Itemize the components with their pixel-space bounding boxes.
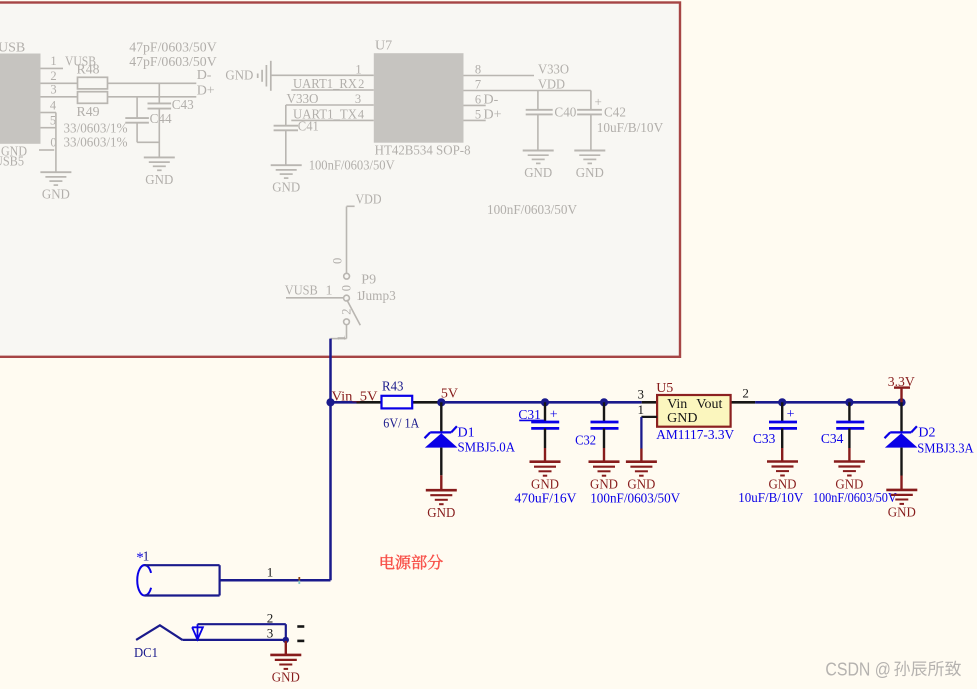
svg-text:U7: U7 (375, 39, 392, 54)
svg-text:USB5: USB5 (0, 154, 24, 169)
svg-text:GND: GND (888, 506, 916, 521)
svg-text:AM1117-3.3V: AM1117-3.3V (656, 428, 734, 443)
svg-text:2: 2 (742, 386, 749, 401)
svg-text:100nF/0603/50V: 100nF/0603/50V (590, 492, 680, 507)
svg-text:47pF/0603/50V: 47pF/0603/50V (129, 41, 217, 56)
svg-text:1: 1 (638, 402, 645, 417)
svg-text:33/0603/1%: 33/0603/1% (64, 121, 128, 136)
svg-text:C44: C44 (150, 112, 172, 127)
svg-text:D+: D+ (484, 108, 502, 123)
svg-text:10uF/B/10V: 10uF/B/10V (597, 121, 664, 136)
svg-text:4: 4 (50, 98, 57, 112)
svg-text:P9: P9 (361, 273, 376, 288)
svg-text:GND: GND (590, 478, 618, 493)
svg-text:2: 2 (340, 309, 354, 315)
svg-text:V33O: V33O (287, 92, 319, 107)
svg-text:D1: D1 (458, 426, 475, 441)
svg-text:C40: C40 (554, 105, 576, 120)
svg-text:47pF/0603/50V: 47pF/0603/50V (129, 55, 217, 70)
svg-text:5: 5 (475, 108, 481, 122)
svg-text:1: 1 (143, 549, 150, 564)
svg-text:R48: R48 (77, 63, 100, 78)
svg-text:D-: D- (484, 93, 499, 108)
svg-text:GND: GND (427, 506, 455, 521)
svg-text:GND: GND (531, 478, 559, 493)
svg-text:3: 3 (267, 625, 274, 640)
svg-text:D-: D- (197, 68, 212, 83)
svg-text:7: 7 (475, 77, 481, 91)
svg-text:C42: C42 (604, 105, 626, 120)
svg-text:GND: GND (627, 478, 655, 493)
svg-text:UART1_RX: UART1_RX (293, 77, 357, 92)
svg-text:100nF/0603/50V: 100nF/0603/50V (309, 159, 395, 174)
svg-text:0: 0 (339, 285, 353, 291)
svg-text:100nF/0603/50V: 100nF/0603/50V (813, 491, 897, 506)
svg-text:3: 3 (355, 92, 361, 106)
svg-text:+: + (595, 94, 602, 109)
svg-text:GND: GND (272, 671, 300, 686)
svg-text:1: 1 (267, 565, 274, 580)
svg-text:0: 0 (330, 258, 344, 264)
svg-text:4: 4 (358, 107, 365, 121)
svg-text:GND: GND (576, 166, 604, 181)
svg-text:C34: C34 (821, 432, 844, 447)
svg-text:5V: 5V (441, 386, 458, 401)
svg-text:1: 1 (334, 335, 348, 341)
svg-text:U5: U5 (656, 381, 673, 396)
svg-text:R49: R49 (77, 105, 100, 120)
svg-text:D+: D+ (197, 83, 215, 98)
svg-text:GND: GND (524, 166, 552, 181)
svg-text:470uF/16V: 470uF/16V (515, 492, 577, 507)
svg-text:GND: GND (145, 173, 173, 188)
svg-text:1: 1 (355, 62, 361, 76)
svg-text:SMBJ5.0A: SMBJ5.0A (458, 441, 516, 456)
svg-text:GND: GND (272, 181, 300, 196)
svg-text:C43: C43 (172, 98, 194, 113)
svg-text:1: 1 (50, 54, 56, 68)
svg-text:6V/ 1A: 6V/ 1A (383, 417, 420, 432)
svg-text:Jump3: Jump3 (360, 289, 396, 304)
svg-text:6: 6 (475, 93, 481, 107)
svg-text:Vin_5V: Vin_5V (332, 390, 378, 405)
svg-text:Vout: Vout (696, 397, 722, 412)
svg-text:GND: GND (667, 411, 697, 426)
svg-text:2: 2 (50, 69, 56, 83)
svg-text:10uF/B/10V: 10uF/B/10V (738, 491, 803, 506)
svg-text:USB: USB (0, 41, 25, 56)
svg-text:DC1: DC1 (134, 646, 158, 661)
svg-text:CSDN @: CSDN @ (825, 659, 891, 679)
svg-text:D2: D2 (918, 426, 935, 441)
svg-text:1: 1 (326, 284, 333, 299)
svg-text:+: + (550, 408, 558, 423)
svg-text:SMBJ3.3A: SMBJ3.3A (917, 441, 974, 456)
svg-text:2: 2 (358, 77, 364, 91)
svg-text:HT42B534 SOP-8: HT42B534 SOP-8 (375, 144, 471, 159)
svg-text:V33O: V33O (538, 62, 569, 77)
svg-text:C32: C32 (575, 433, 596, 448)
svg-text:2: 2 (267, 610, 274, 625)
svg-text:R43: R43 (382, 380, 404, 395)
svg-text:C33: C33 (753, 432, 776, 447)
svg-text:C41: C41 (298, 120, 319, 135)
svg-text:GND: GND (225, 69, 253, 84)
svg-text:VUSB: VUSB (285, 284, 318, 299)
svg-text:3: 3 (50, 83, 56, 97)
svg-text:3: 3 (638, 386, 645, 401)
svg-text:VDD: VDD (538, 77, 565, 92)
svg-text:+: + (787, 407, 795, 422)
svg-text:VDD: VDD (356, 192, 382, 207)
svg-text:8: 8 (475, 62, 481, 76)
svg-text:33/0603/1%: 33/0603/1% (64, 136, 128, 151)
svg-text:100nF/0603/50V: 100nF/0603/50V (487, 203, 577, 218)
svg-text:GND: GND (42, 188, 70, 203)
svg-text:Vin: Vin (667, 397, 687, 412)
